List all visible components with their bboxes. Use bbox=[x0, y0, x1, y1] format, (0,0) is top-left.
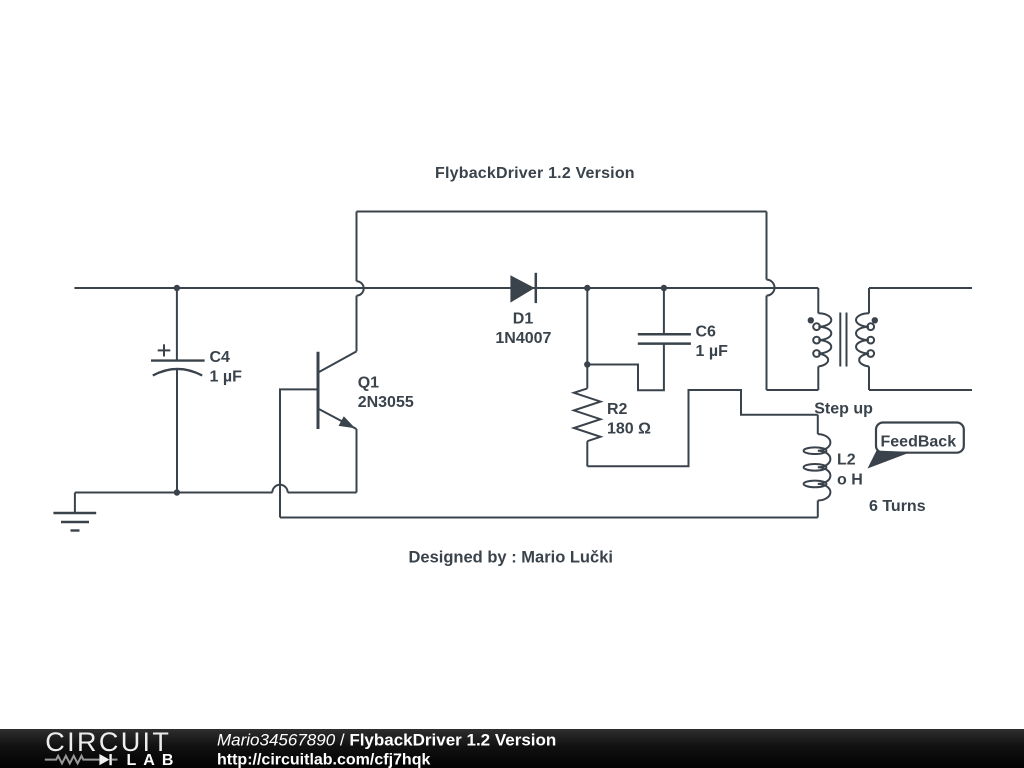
node C4 ground junction bbox=[174, 489, 180, 495]
transformer T1 core bbox=[840, 313, 846, 367]
inductor L2 bbox=[804, 415, 831, 518]
svg-text:L2: L2 bbox=[837, 452, 856, 469]
wire primary bottom bbox=[767, 389, 819, 391]
svg-text:C6: C6 bbox=[696, 324, 717, 341]
logo diode bbox=[99, 754, 109, 765]
capacitor C6 bbox=[638, 288, 691, 344]
wire bottom feedback rail bbox=[280, 517, 818, 519]
node C6 top junction bbox=[661, 285, 667, 291]
svg-text:C4: C4 bbox=[210, 349, 231, 366]
wire Q1 collector vertical with hop bbox=[357, 212, 364, 352]
wire emitter ground rail with hop bbox=[75, 485, 357, 493]
svg-text:LAB: LAB bbox=[127, 752, 181, 768]
svg-text:2N3055: 2N3055 bbox=[358, 394, 414, 411]
diode D1 bbox=[510, 273, 535, 303]
svg-text:6 Turns: 6 Turns bbox=[869, 498, 926, 515]
ground bbox=[53, 493, 96, 531]
svg-text:http://circuitlab.com/cfj7hqk: http://circuitlab.com/cfj7hqk bbox=[217, 751, 430, 768]
logo resistor zigzag bbox=[45, 756, 100, 764]
wire R2 branch vertical bbox=[586, 288, 588, 365]
resistor R2 bbox=[574, 365, 601, 467]
transistor Q1 bbox=[318, 351, 357, 492]
svg-text:Mario34567890 / FlybackDriver: Mario34567890 / FlybackDriver 1.2 Versio… bbox=[217, 730, 556, 749]
wire collector top link bbox=[357, 211, 767, 213]
svg-text:o H: o H bbox=[837, 472, 863, 489]
transformer T1 primary dot bbox=[808, 317, 814, 323]
capacitor C4 bbox=[151, 288, 205, 493]
wire R2 to L2 top bbox=[587, 390, 818, 466]
wire Q1 base bbox=[280, 389, 318, 517]
node D1-R2 junction bbox=[584, 285, 590, 291]
svg-text:1 µF: 1 µF bbox=[696, 343, 729, 360]
node R2 top junction bbox=[584, 361, 590, 367]
wire main top rail bbox=[74, 287, 818, 289]
svg-text:1N4007: 1N4007 bbox=[495, 330, 551, 347]
svg-text:Q1: Q1 bbox=[358, 375, 379, 392]
svg-text:1 µF: 1 µF bbox=[210, 368, 243, 385]
transformer T1 secondary coil bbox=[856, 288, 874, 390]
FeedBack callout bbox=[868, 423, 964, 469]
node A main-C4 junction bbox=[174, 285, 180, 291]
transformer T1 secondary dot bbox=[872, 317, 878, 323]
svg-text:Step up: Step up bbox=[814, 401, 873, 418]
wire secondary bottom out bbox=[869, 389, 972, 391]
wire transformer drive vertical with hop bbox=[767, 212, 775, 391]
wire C6 bottom jog to R2 node bbox=[587, 344, 664, 391]
svg-text:FeedBack: FeedBack bbox=[881, 434, 957, 451]
svg-text:R2: R2 bbox=[607, 401, 628, 418]
wire secondary top out bbox=[869, 287, 972, 289]
svg-text:180 Ω: 180 Ω bbox=[607, 420, 651, 437]
svg-text:FlybackDriver 1.2 Version: FlybackDriver 1.2 Version bbox=[435, 165, 635, 182]
svg-text:Designed by : Mario Lučki: Designed by : Mario Lučki bbox=[409, 549, 613, 567]
transformer T1 primary coil bbox=[813, 288, 831, 390]
svg-text:D1: D1 bbox=[513, 310, 534, 327]
